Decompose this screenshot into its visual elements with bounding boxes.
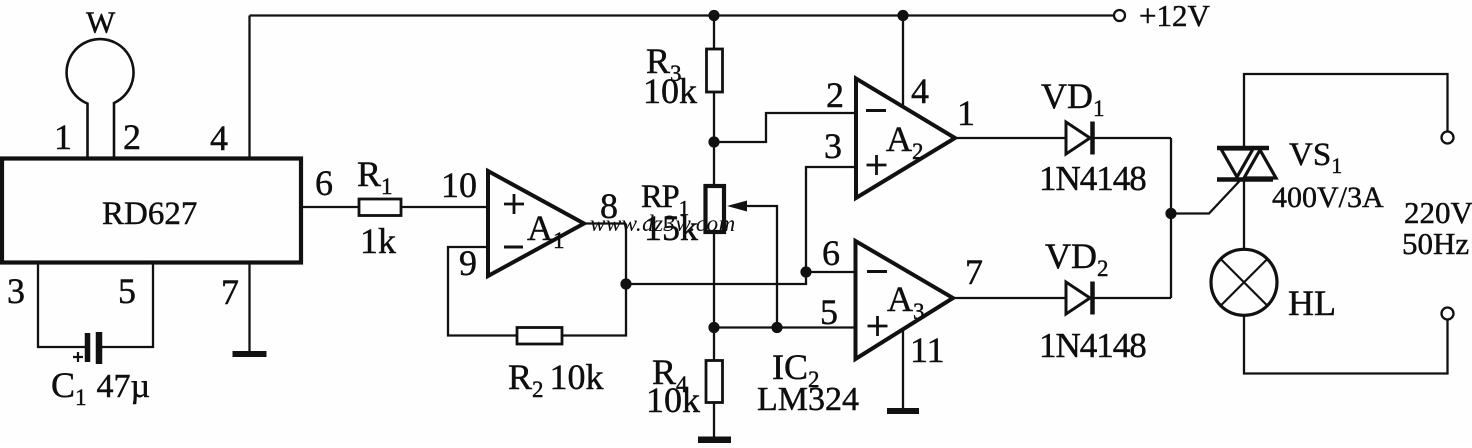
triac VS1 bbox=[1217, 148, 1276, 180]
wire VD1 to node bbox=[1095, 137, 1172, 139]
svg-text:R210k: R210k bbox=[508, 357, 604, 402]
svg-text:400V/3A: 400V/3A bbox=[1272, 181, 1384, 214]
potentiometer RP1 bbox=[706, 186, 778, 328]
svg-text:HL: HL bbox=[1288, 283, 1336, 323]
wire +12V top rail bbox=[250, 14, 1114, 16]
wire R4 to ground bbox=[713, 403, 715, 438]
wire pin7 to ground bbox=[248, 263, 250, 352]
resistor R1 bbox=[359, 199, 401, 216]
wire pin9 feedback bbox=[448, 247, 517, 336]
node column junction bbox=[708, 322, 719, 333]
svg-text:1k: 1k bbox=[360, 221, 396, 261]
wire lamp bottom bbox=[1244, 315, 1448, 373]
op-amp A3 bbox=[856, 241, 954, 359]
svg-text:3: 3 bbox=[7, 271, 25, 311]
wire R3 to RP1 bbox=[713, 92, 715, 186]
node R3-RP1 junction bbox=[708, 136, 719, 147]
wire triac to lamp bbox=[1243, 180, 1245, 250]
wire node to comparator inputs bbox=[626, 272, 806, 284]
wire up to A2 pin3 bbox=[806, 167, 856, 272]
wire junction to A2 pin2 bbox=[714, 113, 856, 142]
wire A2 pin4 bbox=[902, 16, 904, 108]
wire triac top bbox=[1244, 74, 1448, 148]
svg-text:8: 8 bbox=[600, 186, 618, 226]
svg-text:15k: 15k bbox=[644, 208, 698, 248]
wire A1 output bbox=[584, 222, 626, 224]
resistor R3 bbox=[707, 49, 723, 92]
svg-text:10k: 10k bbox=[646, 380, 700, 420]
node top rail R3 bbox=[708, 10, 719, 21]
svg-text:6: 6 bbox=[315, 163, 333, 203]
diode VD1 bbox=[1066, 122, 1093, 155]
svg-text:7: 7 bbox=[221, 272, 239, 312]
svg-text:LM324: LM324 bbox=[757, 381, 859, 418]
svg-text:5: 5 bbox=[118, 271, 136, 311]
svg-text:1: 1 bbox=[54, 117, 72, 157]
svg-text:RD627: RD627 bbox=[102, 196, 197, 232]
node gate junction bbox=[1165, 208, 1176, 219]
wire A2 output bbox=[955, 137, 1066, 139]
terminal bottom right bbox=[1442, 308, 1454, 320]
svg-text:6: 6 bbox=[822, 233, 840, 273]
wire gate bbox=[1171, 181, 1240, 214]
wire A3 pin11 to ground bbox=[902, 329, 904, 408]
op-amp A1 bbox=[488, 171, 584, 276]
node wiper junction bbox=[771, 322, 782, 333]
svg-text:220V: 220V bbox=[1404, 195, 1472, 230]
sensor W bulb symbol bbox=[67, 39, 134, 159]
wire diode node vertical bbox=[1170, 138, 1172, 298]
wire to A3 pin5 bbox=[714, 326, 855, 328]
svg-text:1N4148: 1N4148 bbox=[1039, 159, 1146, 198]
+12V terminal bbox=[1114, 10, 1125, 21]
wire A3 output bbox=[953, 297, 1066, 299]
capacitor C1 bbox=[73, 332, 99, 364]
node comparator input junction bbox=[800, 266, 811, 277]
svg-text:2: 2 bbox=[826, 75, 844, 115]
terminal top right bbox=[1442, 132, 1454, 144]
wire rail to R3 bbox=[713, 16, 715, 50]
svg-text:4: 4 bbox=[911, 71, 929, 111]
wire pin5 to C1 bbox=[102, 263, 153, 348]
lamp HL bbox=[1211, 249, 1277, 315]
svg-text:W: W bbox=[86, 5, 116, 40]
svg-text:3: 3 bbox=[824, 126, 842, 166]
wire RP1 to R4 bbox=[713, 232, 715, 361]
wire R1 to A1 bbox=[401, 206, 488, 208]
wire pin6 bbox=[301, 206, 359, 208]
svg-text:10: 10 bbox=[441, 165, 477, 205]
svg-text:10k: 10k bbox=[643, 71, 697, 111]
wire to A3 pin6 bbox=[806, 271, 856, 273]
svg-text:7: 7 bbox=[965, 252, 983, 292]
svg-text:4: 4 bbox=[210, 118, 228, 158]
svg-text:50Hz: 50Hz bbox=[1402, 226, 1469, 261]
svg-text:1N4148: 1N4148 bbox=[1039, 326, 1146, 365]
node A1 output junction bbox=[620, 278, 631, 289]
diode VD2 bbox=[1066, 282, 1093, 315]
ground R4 bbox=[698, 437, 731, 444]
op-amp A2 bbox=[856, 79, 955, 199]
wire R2 to node bbox=[562, 224, 626, 336]
svg-text:C147µ: C147µ bbox=[51, 365, 150, 410]
wire VD2 to node bbox=[1095, 297, 1172, 299]
resistor R4 bbox=[706, 361, 723, 403]
IC RD627 box bbox=[2, 159, 301, 263]
svg-text:2: 2 bbox=[123, 117, 141, 157]
node pin4 rail bbox=[897, 10, 908, 21]
ground A3 bbox=[887, 408, 919, 414]
svg-text:1: 1 bbox=[957, 93, 975, 133]
svg-text:9: 9 bbox=[459, 243, 477, 283]
svg-text:5: 5 bbox=[820, 292, 838, 332]
resistor R2 bbox=[517, 328, 562, 345]
svg-text:11: 11 bbox=[910, 330, 945, 370]
wire pin3 to C1 bbox=[38, 263, 85, 348]
wire pin4 to +12V rail bbox=[248, 16, 250, 159]
svg-text:+12V: +12V bbox=[1139, 0, 1210, 33]
ground pin7 bbox=[233, 351, 267, 357]
